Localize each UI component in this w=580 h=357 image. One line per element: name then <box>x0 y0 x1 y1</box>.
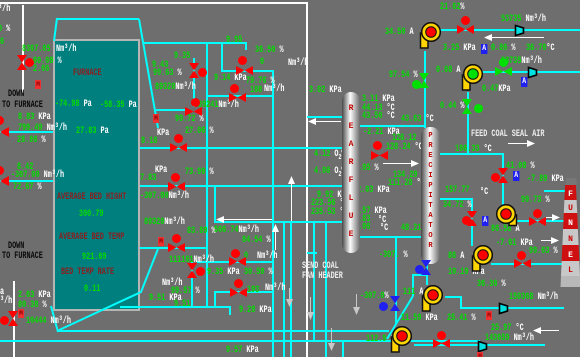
svg-text:N: N <box>568 235 573 244</box>
svg-text:L: L <box>568 266 573 275</box>
svg-text:E: E <box>568 251 573 260</box>
svg-text:N: N <box>568 219 573 228</box>
svg-text:F: F <box>568 190 573 199</box>
svg-text:U: U <box>568 204 573 213</box>
